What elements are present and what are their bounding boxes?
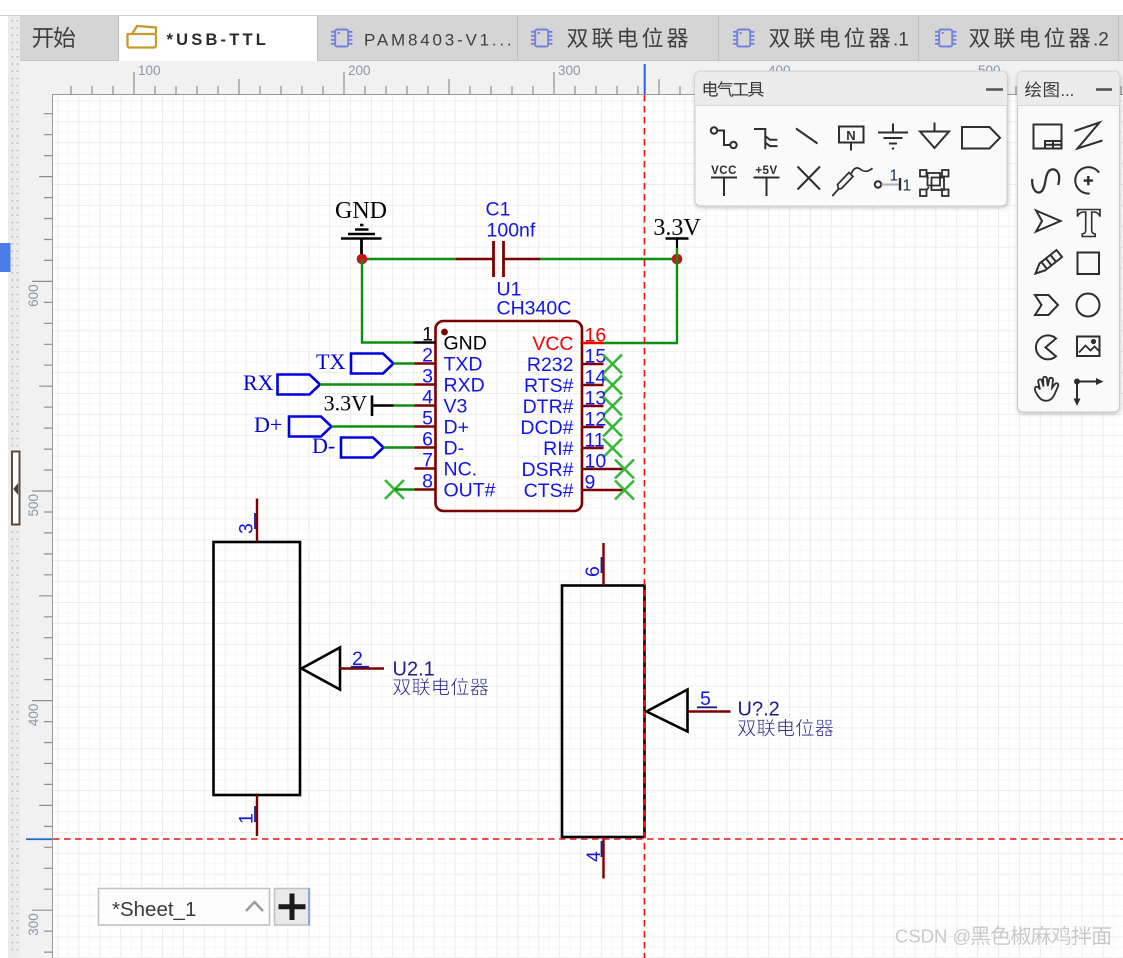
svg-text:OUT#: OUT# <box>444 480 496 502</box>
net flag D- <box>312 433 384 458</box>
pin 3 of U2.1 <box>236 499 258 543</box>
svg-text:3.3V: 3.3V <box>653 215 701 241</box>
svg-text:VCC: VCC <box>532 333 573 355</box>
svg-text:100nf: 100nf <box>487 220 536 242</box>
svg-text:VCC: VCC <box>711 165 737 177</box>
svg-text:400: 400 <box>26 704 41 727</box>
svg-text:8: 8 <box>422 471 433 493</box>
svg-text:6: 6 <box>582 566 604 577</box>
svg-text:+5V: +5V <box>755 165 777 177</box>
pin 6 D- <box>415 429 465 460</box>
svg-text:13: 13 <box>585 388 607 410</box>
svg-text:D+: D+ <box>254 412 282 437</box>
pin 1 orientation dot <box>441 329 448 336</box>
svg-text:CSDN @: CSDN @ <box>895 926 971 947</box>
no-connect flag pin 10 <box>615 460 634 479</box>
svg-text:RX: RX <box>243 370 274 395</box>
value U?.2 double potentiometer <box>738 719 834 737</box>
net flag D+ <box>254 412 332 437</box>
wire C1 to 3.3V node <box>540 258 677 260</box>
svg-text:C1: C1 <box>486 199 511 221</box>
pin 5 D+ <box>415 408 469 439</box>
pin 9 CTS# <box>524 472 625 503</box>
pin 4 V3 <box>415 387 468 418</box>
ruler cursor marker top <box>644 64 646 94</box>
cursor crosshair horizontal <box>53 838 1123 840</box>
svg-text:CTS#: CTS# <box>524 480 574 502</box>
svg-text:D+: D+ <box>444 417 469 439</box>
pin 1 of U2.1 <box>236 795 258 836</box>
svg-text:11: 11 <box>585 430 605 452</box>
pin 1 GND <box>414 324 487 355</box>
junction at 3.3V node <box>672 254 683 265</box>
svg-text:DTR#: DTR# <box>523 396 574 418</box>
junction at GND node <box>357 254 368 265</box>
svg-text:TX: TX <box>316 349 345 374</box>
svg-text:RXD: RXD <box>444 375 485 397</box>
no-connect flag pin 11 <box>603 439 622 458</box>
pin 14 RTS# <box>524 367 606 398</box>
svg-text:7: 7 <box>422 450 433 472</box>
pin 2 TXD <box>415 345 483 376</box>
svg-text:R232: R232 <box>527 354 574 376</box>
svg-text:100: 100 <box>138 63 161 78</box>
cursor crosshair vertical <box>644 95 646 958</box>
svg-text:PAM8403-V1...: PAM8403-V1... <box>364 31 514 50</box>
svg-text:...: ... <box>1061 82 1075 100</box>
svg-text:NC.: NC. <box>444 459 478 481</box>
pin 4 of U?.2 <box>583 837 605 879</box>
pin 3 RXD <box>415 366 485 397</box>
svg-text:600: 600 <box>26 284 41 307</box>
svg-text:300: 300 <box>26 913 41 936</box>
svg-text:9: 9 <box>585 472 596 494</box>
svg-text:.2: .2 <box>1093 30 1109 51</box>
svg-text:4: 4 <box>422 387 433 409</box>
pin 2 of U2.1 <box>340 648 384 670</box>
svg-text:5: 5 <box>422 408 433 430</box>
pin 8 OUT# <box>415 471 496 502</box>
wire GND vertical to pin 1 <box>362 259 414 343</box>
pin 6 of U?.2 <box>582 543 604 586</box>
wire TX to pin 2 <box>394 362 415 364</box>
net flag TX <box>316 349 394 374</box>
svg-text:V3: V3 <box>444 396 468 418</box>
svg-text:15: 15 <box>585 346 607 368</box>
svg-text:3.3V: 3.3V <box>324 391 368 416</box>
net flag RX <box>243 370 320 395</box>
capacitor C1 <box>456 241 540 277</box>
svg-text:U2.1: U2.1 <box>393 659 435 681</box>
svg-text:200: 200 <box>348 63 371 78</box>
svg-text:500: 500 <box>26 494 41 517</box>
pin 7 NC. <box>415 450 478 481</box>
svg-text:300: 300 <box>558 63 581 78</box>
value U2.1 double potentiometer <box>393 678 489 696</box>
svg-text:RI#: RI# <box>543 438 574 460</box>
no-connect flag pin 15 <box>603 355 622 374</box>
svg-text:D-: D- <box>312 433 335 458</box>
svg-text:12: 12 <box>585 409 607 431</box>
collapsed panel handle <box>12 452 20 525</box>
svg-text:RTS#: RTS# <box>524 375 574 397</box>
wiper arrow U2.1 <box>302 648 341 690</box>
resistor body U?.2 potentiometer <box>562 586 645 838</box>
wire D+ to pin 5 <box>332 425 415 427</box>
wire RX to pin 3 <box>320 383 415 385</box>
wire GND horizontal <box>362 258 456 260</box>
wire 3.3V label to pin 4 <box>394 404 415 406</box>
svg-text:4: 4 <box>583 851 605 862</box>
svg-text:*Sheet_1: *Sheet_1 <box>112 898 196 921</box>
ground symbol GND <box>335 198 387 259</box>
pin 15 R232 <box>527 346 606 377</box>
svg-text:6: 6 <box>422 429 433 451</box>
svg-text:.1: .1 <box>893 30 909 51</box>
svg-text:1: 1 <box>236 813 258 824</box>
svg-text:1: 1 <box>422 324 433 346</box>
svg-text:14: 14 <box>585 367 607 389</box>
svg-text:2: 2 <box>352 648 363 670</box>
wire 3.3V node down to pin 16 <box>604 259 678 343</box>
pin 10 DSR# <box>521 451 624 482</box>
svg-text:16: 16 <box>585 325 607 347</box>
svg-text:3: 3 <box>236 523 258 534</box>
svg-text:GND: GND <box>335 198 387 224</box>
no-connect flag pin 12 <box>603 418 622 437</box>
IC U1 CH340C <box>436 321 583 511</box>
svg-text:CH340C: CH340C <box>497 298 572 320</box>
svg-text:10: 10 <box>585 451 607 473</box>
svg-text:N: N <box>846 128 855 143</box>
no-connect flag pin 14 <box>603 376 622 395</box>
svg-text:5: 5 <box>700 688 711 710</box>
pin 5 of U?.2 <box>688 688 731 712</box>
resistor body U2.1 potentiometer <box>214 542 301 795</box>
svg-text:GND: GND <box>444 333 487 355</box>
svg-text:1: 1 <box>903 178 912 195</box>
pin 13 DTR# <box>523 388 607 419</box>
svg-text:D-: D- <box>444 438 465 460</box>
svg-text:DCD#: DCD# <box>520 417 573 439</box>
net label 3.3V on pin 4 <box>324 391 394 417</box>
svg-text:TXD: TXD <box>444 354 483 376</box>
svg-text:DSR#: DSR# <box>521 459 573 481</box>
pin 12 DCD# <box>520 409 606 440</box>
no-connect flag pin 13 <box>603 397 622 416</box>
no-connect flag pin 9 <box>615 481 634 500</box>
pin 16 VCC <box>532 325 606 356</box>
power symbol 3.3V <box>653 215 701 259</box>
svg-text:3: 3 <box>422 366 433 388</box>
left dock highlight <box>0 243 11 272</box>
no-connect flag pin 8 <box>385 480 404 499</box>
svg-text:*USB-TTL: *USB-TTL <box>167 31 270 49</box>
wire D- to pin 6 <box>384 446 415 448</box>
svg-text:U?.2: U?.2 <box>738 699 780 721</box>
svg-text:1: 1 <box>890 168 899 185</box>
wire stub pin 8 <box>395 488 415 490</box>
wiper arrow U?.2 <box>647 690 688 732</box>
ruler cursor marker left <box>26 838 52 840</box>
svg-text:2: 2 <box>422 345 433 367</box>
pin 11 RI# <box>543 430 605 461</box>
